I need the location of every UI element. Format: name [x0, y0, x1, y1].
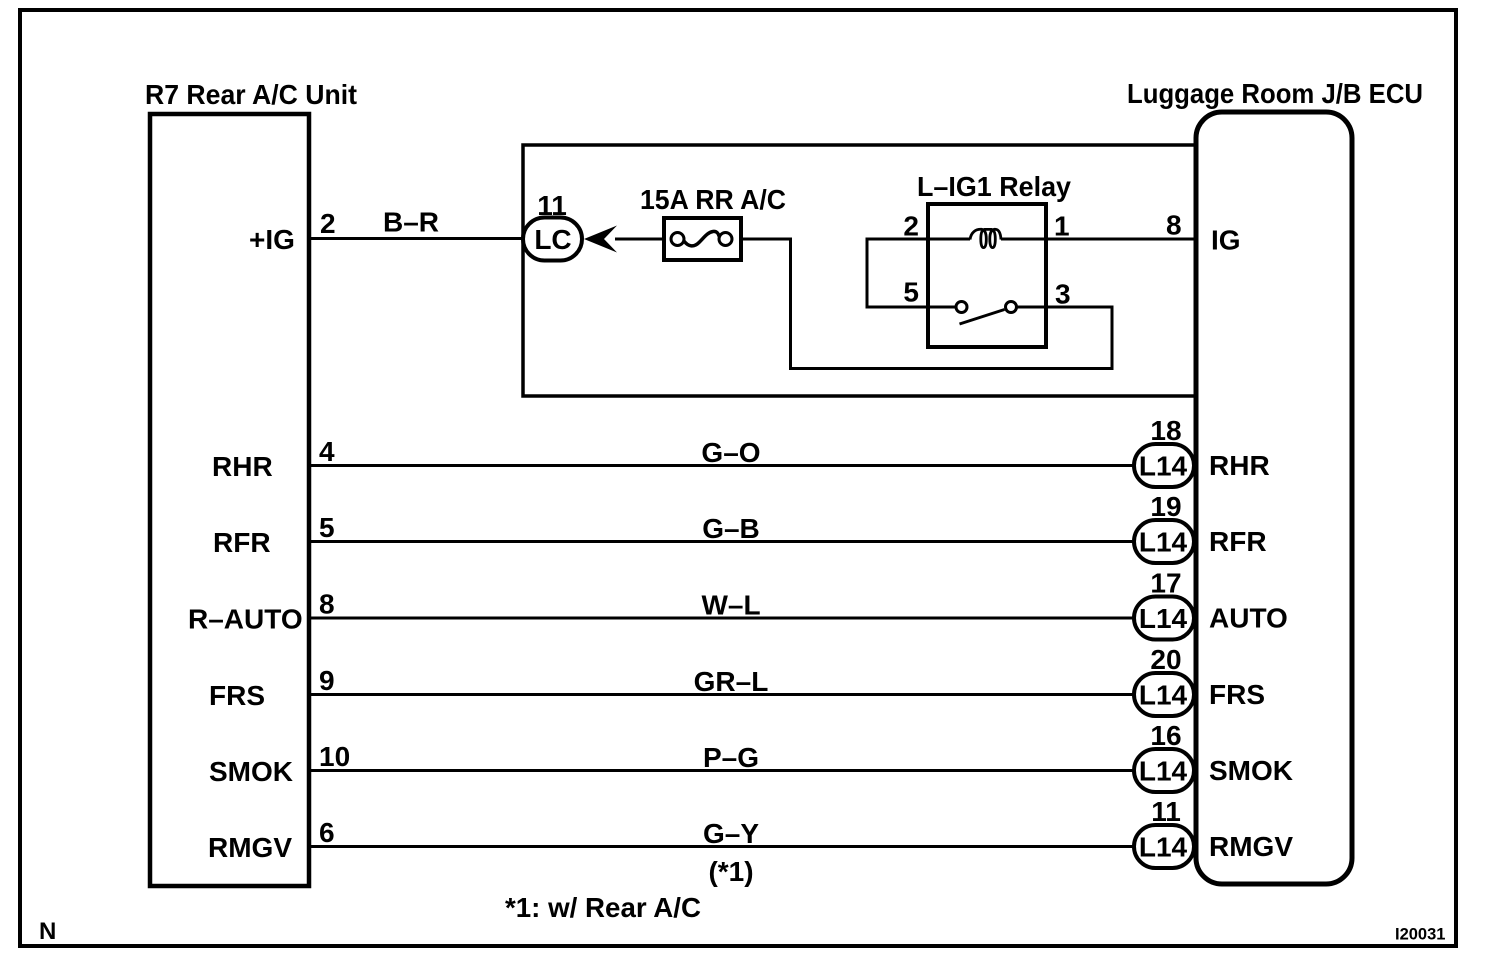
relay L-IG1	[917, 171, 1071, 347]
svg-text:LC: LC	[534, 224, 571, 255]
wire arrow to fuse	[615, 238, 664, 241]
svg-text:RHR: RHR	[212, 451, 273, 482]
wire G–O from R7 pin 4 to L14 pin 18	[311, 464, 1136, 467]
connector R7 Rear A/C Unit	[145, 79, 357, 886]
connector L14 pin 20	[1134, 644, 1194, 716]
svg-text:4: 4	[319, 436, 335, 467]
connector LC pin 11	[523, 190, 582, 261]
svg-text:RFR: RFR	[213, 527, 271, 558]
svg-text:2: 2	[903, 211, 919, 242]
splice arrow	[584, 226, 617, 253]
svg-text:L14: L14	[1139, 527, 1188, 558]
svg-text:20: 20	[1150, 644, 1181, 675]
connector L14 pin 17	[1134, 568, 1194, 640]
relay coil	[930, 229, 1001, 247]
svg-text:L14: L14	[1139, 451, 1188, 482]
connector L14 pin 19	[1134, 491, 1194, 563]
svg-text:GR–L: GR–L	[694, 666, 769, 697]
svg-text:L14: L14	[1139, 603, 1188, 634]
connector L14 pin 16	[1134, 720, 1194, 792]
svg-text:R7 Rear A/C Unit: R7 Rear A/C Unit	[145, 79, 357, 110]
svg-text:SMOK: SMOK	[209, 756, 293, 787]
svg-text:R–AUTO: R–AUTO	[188, 604, 303, 635]
J/B internal circuit box	[523, 145, 1196, 396]
relay switch	[930, 302, 1045, 325]
svg-text:B–R: B–R	[383, 207, 439, 238]
wire fuse to relay pin 3	[741, 239, 1112, 369]
svg-text:Luggage Room J/B ECU: Luggage Room J/B ECU	[1127, 78, 1423, 109]
fuse 15A RR A/C	[640, 184, 786, 260]
svg-text:11: 11	[1151, 796, 1181, 827]
wire relay pin 2 to pin 5 loop	[867, 239, 928, 307]
svg-text:RFR: RFR	[1209, 526, 1267, 557]
svg-text:SMOK: SMOK	[1209, 755, 1293, 786]
svg-text:RMGV: RMGV	[1209, 831, 1293, 862]
svg-text:11: 11	[537, 190, 567, 221]
svg-text:AUTO: AUTO	[1209, 603, 1288, 634]
svg-text:P–G: P–G	[703, 742, 759, 773]
connector L14 pin 18	[1134, 415, 1194, 487]
svg-text:RHR: RHR	[1209, 450, 1270, 481]
svg-text:19: 19	[1150, 491, 1181, 522]
wire P–G from R7 pin 10 to L14 pin 16	[311, 769, 1136, 772]
svg-text:2: 2	[320, 208, 336, 239]
svg-text:G–Y: G–Y	[703, 818, 759, 849]
svg-text:L–IG1 Relay: L–IG1 Relay	[917, 171, 1071, 202]
svg-text:18: 18	[1150, 415, 1181, 446]
ECU Luggage Room J/B	[1127, 78, 1423, 884]
svg-text:L14: L14	[1139, 756, 1188, 787]
svg-text:6: 6	[319, 817, 335, 848]
svg-text:RMGV: RMGV	[208, 832, 292, 863]
svg-text:9: 9	[319, 665, 335, 696]
wire B-R from R7 pin 2 to LC	[311, 237, 525, 240]
svg-text:N: N	[39, 918, 56, 945]
wire relay pin 1 to ECU pin 8	[1001, 238, 1196, 241]
svg-text:L14: L14	[1139, 680, 1188, 711]
svg-text:*1: w/ Rear A/C: *1: w/ Rear A/C	[505, 892, 701, 923]
wire GR–L from R7 pin 9 to L14 pin 20	[311, 693, 1136, 696]
svg-text:8: 8	[1166, 210, 1182, 241]
svg-text:1: 1	[1054, 211, 1070, 242]
svg-text:8: 8	[319, 589, 335, 620]
svg-text:(*1): (*1)	[708, 856, 753, 887]
svg-text:+IG: +IG	[249, 224, 295, 255]
svg-text:16: 16	[1150, 720, 1181, 751]
wire W–L from R7 pin 8 to L14 pin 17	[311, 617, 1136, 620]
wire G–Y from R7 pin 6 to L14 pin 11	[311, 845, 1136, 848]
svg-text:3: 3	[1055, 279, 1071, 310]
svg-text:FRS: FRS	[209, 680, 265, 711]
svg-text:W–L: W–L	[701, 590, 760, 621]
svg-text:IG: IG	[1211, 225, 1241, 256]
svg-text:5: 5	[319, 512, 335, 543]
wire G–B from R7 pin 5 to L14 pin 19	[311, 540, 1136, 543]
svg-text:15A RR A/C: 15A RR A/C	[640, 184, 786, 215]
svg-text:G–O: G–O	[701, 437, 760, 468]
svg-text:17: 17	[1150, 568, 1181, 599]
connector L14 pin 11	[1134, 796, 1194, 868]
svg-text:L14: L14	[1139, 832, 1188, 863]
svg-text:FRS: FRS	[1209, 679, 1265, 710]
svg-text:5: 5	[903, 277, 919, 308]
svg-text:I20031: I20031	[1395, 926, 1445, 944]
svg-text:G–B: G–B	[702, 513, 760, 544]
svg-text:10: 10	[319, 741, 350, 772]
